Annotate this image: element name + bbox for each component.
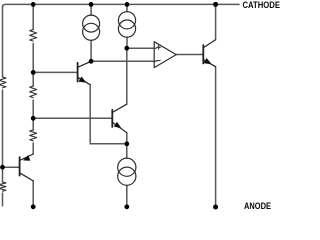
wire Q4 emitter vertical bbox=[215, 67, 217, 207]
resistor R2 bbox=[30, 86, 37, 98]
wire Q3 collector vertical bbox=[32, 181, 34, 207]
wire opamp noninverting input bbox=[127, 47, 156, 49]
svg-text:ANODE: ANODE bbox=[244, 201, 271, 210]
junction dot rail / divider bbox=[31, 2, 36, 7]
wire left column bbox=[2, 6, 4, 206]
wire top rail bbox=[3, 4, 240, 7]
terminal dot bottom anode bbox=[213, 205, 218, 210]
wire divider column bbox=[32, 4, 34, 130]
transistor Q1 bar bbox=[77, 63, 79, 82]
transistor Q4 emitter leg bbox=[203, 60, 215, 67]
emitter arrow Q2 bbox=[114, 123, 120, 128]
wire Q3 emitter stub bbox=[32, 143, 34, 154]
transistor Q4 base stub bbox=[202, 54, 205, 56]
wire Q2 emitter stub bbox=[126, 133, 128, 144]
terminal dot bottom I3 bbox=[124, 204, 129, 209]
junction dot opamp - node bbox=[89, 59, 94, 64]
wire Q2 collector vertical bbox=[126, 48, 128, 104]
current source I3 bbox=[118, 158, 136, 176]
junction dot emitter bus bbox=[124, 141, 129, 146]
junction dot rail / cathode bbox=[213, 2, 218, 7]
resistor R1 bbox=[30, 30, 37, 42]
current source I2 bbox=[118, 12, 135, 29]
junction dot rail / I1 bbox=[89, 2, 94, 7]
transistor Q1 collector leg bbox=[78, 61, 92, 67]
junction dot divider tap 1 bbox=[31, 70, 36, 75]
terminal dot bottom divider bbox=[31, 204, 36, 209]
emitter arrow Q4 bbox=[204, 59, 211, 64]
wire opamp output bbox=[176, 54, 202, 56]
wire current source I1 stubs bbox=[90, 4, 92, 61]
junction dot left bias bbox=[0, 165, 5, 170]
emitter arrow Q1 bbox=[79, 77, 85, 82]
transistor Q3 emitter leg bbox=[20, 154, 34, 161]
current source I1 bbox=[83, 15, 100, 32]
wire current source I3 stubs bbox=[126, 144, 128, 207]
transistor Q1 emitter leg bbox=[78, 77, 91, 84]
svg-text:CATHODE: CATHODE bbox=[243, 0, 281, 10]
resistor R4 bbox=[0, 77, 6, 88]
wire base Q2 bbox=[33, 117, 111, 119]
transistor Q2 emitter leg bbox=[112, 122, 127, 133]
emitter arrow Q3 bbox=[24, 156, 30, 161]
transistor Q3 collector leg bbox=[20, 173, 34, 181]
resistor R3 bbox=[30, 130, 37, 141]
transistor Q4 bar bbox=[202, 45, 204, 64]
transistor Q2 collector leg bbox=[112, 104, 127, 112]
junction dot divider tap 2 bbox=[31, 116, 36, 121]
wire base Q1 bbox=[33, 71, 77, 73]
transistor Q4 collector leg bbox=[203, 40, 215, 48]
resistor R5 bbox=[0, 182, 6, 191]
wire opamp inverting input bbox=[91, 60, 156, 62]
transistor Q3 bar bbox=[19, 157, 21, 175]
junction dot rail / I2 bbox=[125, 2, 130, 7]
wire Q4 collector vertical bbox=[215, 4, 217, 39]
junction dot opamp + node bbox=[124, 46, 129, 51]
wire base Q3 bbox=[3, 166, 19, 168]
op-amp U1 bbox=[154, 42, 176, 68]
wire Q1 emitter bus to I3 bbox=[90, 85, 127, 144]
transistor Q2 bar bbox=[111, 110, 113, 127]
wire current source I2 stubs bbox=[126, 4, 128, 48]
